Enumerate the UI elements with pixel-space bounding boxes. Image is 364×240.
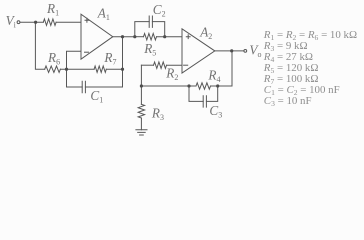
svg-text:A1: A1	[97, 5, 110, 22]
svg-text:R3: R3	[151, 106, 164, 123]
resistor R2	[154, 62, 167, 68]
wire R1 to A1 + input	[56, 21, 81, 23]
resistor R6	[45, 66, 61, 72]
wire R2 corner down to node Z and R3	[140, 65, 142, 104]
node Z	[140, 84, 143, 87]
svg-text:R5: R5	[143, 41, 156, 58]
capacitor C3	[203, 96, 206, 107]
wire node Y to R5	[135, 36, 144, 38]
wire C2 left bracket	[135, 22, 149, 37]
op-amp A2	[182, 29, 215, 73]
node C2 left	[133, 35, 136, 38]
wire R4 to corner up to output row	[211, 51, 233, 86]
node Y row D	[121, 68, 124, 71]
wire node X up to A1 - input	[67, 51, 82, 69]
wire A2 output to Vo	[215, 50, 244, 52]
svg-text:R2: R2	[165, 66, 178, 83]
node Y row B	[121, 35, 124, 38]
wire J1 down to R6 row	[35, 22, 44, 69]
svg-text:R1: R1	[46, 1, 59, 18]
wire R5 to A2 + input	[157, 36, 183, 38]
wire A1 output to node Y	[113, 36, 135, 38]
svg-text:C2: C2	[153, 2, 166, 19]
svg-text:C1: C1	[90, 88, 103, 105]
wire R2 row to A2 - input	[141, 64, 153, 66]
resistor R4	[196, 83, 211, 89]
wire node Z to R4	[141, 85, 196, 87]
node X	[65, 68, 68, 71]
wire Vi to junction J1	[20, 21, 43, 23]
svg-text:C3: C3	[209, 103, 222, 120]
wire C3 right bracket	[206, 86, 217, 101]
wire R7 to node Y vertical	[106, 68, 122, 70]
ground	[136, 130, 147, 135]
capacitor C2	[149, 16, 152, 27]
node R4 left	[187, 84, 190, 87]
wire C1 to node Y vertical	[85, 86, 122, 88]
wire C2 right bracket	[152, 22, 164, 37]
node C2 right	[163, 35, 166, 38]
wire R3 to ground	[140, 118, 142, 130]
wire node Y vertical	[122, 37, 124, 87]
wire C3 left bracket	[189, 86, 203, 101]
wire R6 to node X	[60, 68, 94, 70]
capacitor C1	[82, 81, 85, 92]
resistor R7	[94, 66, 106, 72]
node output junction	[230, 49, 233, 52]
resistor R3	[138, 104, 144, 118]
svg-text:R4: R4	[207, 68, 220, 85]
resistor R5	[144, 34, 157, 40]
node R4 right	[216, 84, 219, 87]
svg-text:R6: R6	[47, 50, 60, 67]
svg-text:A2: A2	[199, 25, 212, 42]
node Vi terminal	[17, 21, 20, 24]
node J1	[34, 21, 37, 24]
svg-text:Vo: Vo	[249, 43, 261, 60]
op-amp A1	[81, 14, 113, 59]
wire node X down to C1 bottom row	[67, 69, 83, 87]
svg-text:R7: R7	[103, 50, 116, 67]
svg-text:Vi: Vi	[6, 13, 17, 30]
svg-text:C3 = 10 nF: C3 = 10 nF	[264, 95, 312, 108]
node Vo terminal	[244, 50, 247, 53]
wire R2 to A2 edge	[167, 64, 183, 66]
resistor R1	[43, 19, 56, 25]
